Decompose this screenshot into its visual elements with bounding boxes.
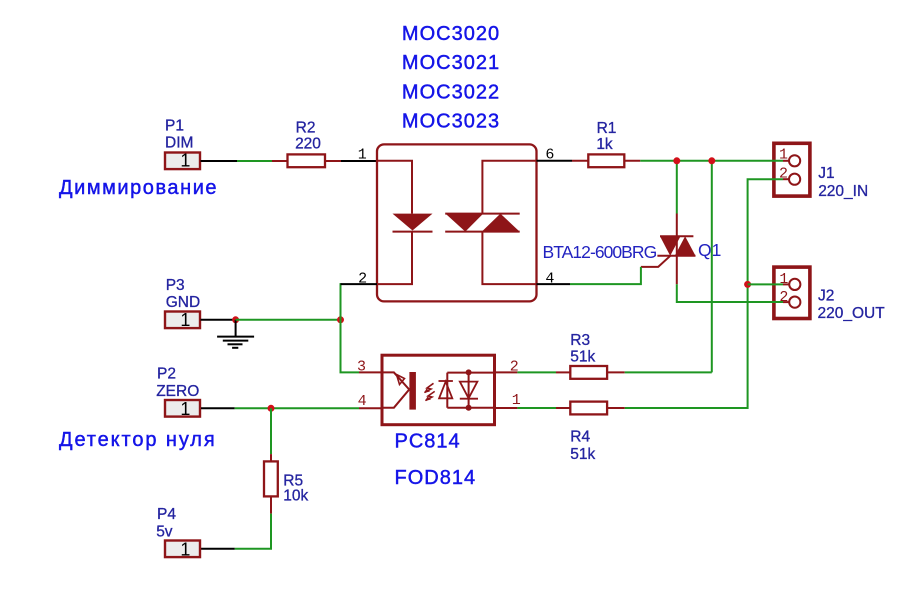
optocoupler U2 PC814 body [382, 355, 495, 425]
wire GND riser up to U1 pin2 (green) [341, 284, 342, 320]
svg-text:ZERO: ZERO [156, 383, 199, 400]
U2 node dot top [466, 369, 472, 375]
wire U2 pin 4 stub [359, 407, 381, 409]
svg-text:5v: 5v [156, 524, 173, 541]
resistor R5 [264, 461, 278, 496]
resistor R3 [570, 366, 607, 379]
wire R4 right terminal [607, 407, 625, 409]
U2 light arrow 2 [426, 391, 435, 400]
wire net to R4 (green) [517, 407, 556, 409]
wire P1 pin stub (black) [201, 160, 238, 162]
wire ZERO net (green) [235, 407, 359, 409]
U1 triac left triangle [446, 214, 484, 232]
svg-text:1: 1 [180, 540, 190, 560]
Q1 gate lead [641, 256, 670, 267]
junction node ZERO/R5 [268, 405, 275, 412]
svg-text:P4: P4 [157, 506, 176, 523]
junction node GND riser [337, 316, 344, 323]
wire R2 left terminal [272, 160, 288, 162]
connector P3 [165, 310, 200, 330]
wire R5 bottom terminal [270, 496, 272, 513]
svg-text:51k: 51k [570, 349, 595, 366]
wire R2 right terminal [325, 160, 341, 162]
svg-text:Q1: Q1 [698, 240, 721, 260]
svg-text:DIM: DIM [165, 135, 193, 152]
wire R1 left terminal [572, 160, 589, 162]
svg-text:220_IN: 220_IN [818, 183, 868, 200]
svg-text:R2: R2 [296, 119, 316, 136]
resistor R2 [288, 154, 326, 167]
wire P3 pin stub (black) [201, 319, 236, 321]
svg-text:1: 1 [779, 146, 788, 163]
svg-text:1: 1 [779, 271, 788, 288]
wire R3 left terminal [556, 371, 571, 373]
wire R5 top terminal [270, 454, 272, 462]
U2 inner pin lines right [469, 373, 494, 408]
junction node at ground [232, 316, 239, 323]
connector J2 [774, 267, 810, 318]
U1 triac branch wiring [482, 161, 536, 284]
U1 LED cathode bar [393, 231, 433, 233]
svg-text:51k: 51k [570, 446, 595, 463]
svg-text:3: 3 [357, 358, 366, 375]
svg-text:1k: 1k [596, 136, 613, 153]
connector P4 [165, 540, 200, 560]
svg-text:PC814: PC814 [395, 431, 461, 453]
U2 LED bar [409, 372, 416, 410]
U1 triac right triangle [482, 214, 520, 232]
svg-text:GND: GND [166, 294, 200, 311]
resistor R4 [570, 402, 607, 415]
U2 light arrow 1 [425, 383, 434, 392]
U2 right photodiode (down) [460, 382, 478, 399]
wire R1 right terminal [624, 160, 640, 162]
junction node at R1/Q1 [673, 157, 680, 164]
junction node J2 pin1 branch [744, 281, 751, 288]
svg-text:FOD814: FOD814 [395, 467, 477, 489]
connector J1 [774, 143, 810, 196]
wire U1 pin 6 stub (black) [537, 160, 573, 162]
svg-text:1: 1 [180, 310, 190, 330]
wire gate net (green) [570, 267, 641, 284]
svg-text:P3: P3 [166, 277, 185, 294]
connector P2 [165, 399, 200, 419]
wire drop to Q1 (green) [676, 161, 678, 214]
wire R5 to P4 (green) [235, 514, 271, 549]
resistor R1 [588, 154, 624, 167]
U1 LED diode [393, 214, 433, 231]
Q1 top bar [660, 235, 693, 237]
svg-text:10k: 10k [283, 488, 308, 505]
wire U1 pin 4 stub (black) [537, 283, 571, 285]
U2 left photodiode (up) [439, 382, 452, 399]
optocoupler U1 MOC302x body [377, 144, 537, 301]
svg-text:MOC3020: MOC3020 [402, 23, 500, 45]
svg-text:J1: J1 [818, 165, 834, 182]
triac Q1 main vertical [676, 214, 678, 285]
ground symbol [217, 320, 254, 348]
wire U1 pin 2 stub (black) [341, 283, 378, 285]
U2 detector rails [447, 373, 468, 408]
svg-text:MOC3023: MOC3023 [402, 111, 500, 133]
svg-text:P1: P1 [165, 118, 184, 135]
wire net to R3 (green) [517, 371, 556, 373]
wire net DIM (green) [237, 160, 272, 162]
svg-text:1: 1 [358, 146, 367, 163]
wire ZERO to R5 (green) [270, 408, 272, 454]
connector P1 [165, 151, 200, 171]
wire net R1 to J1 pin 1 (green) [640, 160, 783, 162]
wire P4 pin stub (black) [201, 548, 235, 550]
wire U1 pin 1 stub (black) [341, 160, 377, 162]
svg-text:1: 1 [180, 151, 190, 171]
wire Q1 bottom to J2 pin 2 (green) [677, 284, 783, 302]
wire U2 pin 2 stub [496, 371, 518, 373]
wire R3 right terminal [607, 371, 625, 373]
svg-text:R3: R3 [570, 332, 590, 349]
svg-text:4: 4 [358, 393, 367, 410]
wire R3 to riser (green) [625, 371, 712, 373]
U2 input LED arrowhead [397, 375, 405, 385]
svg-text:MOC3021: MOC3021 [402, 52, 500, 74]
svg-text:220_OUT: 220_OUT [818, 305, 886, 322]
U2 node dot bottom [466, 405, 472, 411]
svg-text:Диммирование: Диммирование [59, 177, 218, 199]
U1 triac top bar [445, 213, 520, 215]
wire GND net horizontal (green) [236, 319, 341, 321]
wire junction to J2 pin 1 (green) [748, 283, 783, 285]
Q1 right triangle [675, 236, 696, 256]
U1 triac bottom bar [445, 231, 520, 233]
svg-text:R1: R1 [597, 120, 617, 137]
svg-text:BTA12-600BRG: BTA12-600BRG [543, 242, 657, 262]
wire drop to R3 (green) [711, 161, 713, 373]
svg-text:J2: J2 [818, 287, 834, 304]
U2 input LED diagonals [384, 372, 410, 407]
svg-text:2: 2 [779, 289, 788, 306]
wire GND riser down to U2 pin3 (green) [341, 320, 360, 373]
svg-text:MOC3022: MOC3022 [402, 82, 500, 104]
svg-text:P2: P2 [157, 365, 176, 382]
wire R4 left terminal [556, 407, 571, 409]
U1 LED branch wiring [377, 161, 412, 284]
wire U2 pin 3 stub [359, 371, 381, 373]
wire P2 pin stub (black) [201, 407, 235, 409]
svg-text:Детектор нуля: Детектор нуля [59, 429, 217, 451]
svg-text:220: 220 [295, 136, 321, 153]
wire U2 pin 1 stub [496, 407, 518, 409]
svg-text:R4: R4 [570, 429, 590, 446]
wire J1 pin 2 net (green) [625, 179, 783, 408]
Q1 left triangle [660, 236, 681, 256]
svg-text:1: 1 [180, 399, 190, 419]
svg-text:1: 1 [512, 392, 521, 409]
junction node at R1/R3 [708, 157, 715, 164]
Q1 bottom bar [657, 255, 695, 257]
